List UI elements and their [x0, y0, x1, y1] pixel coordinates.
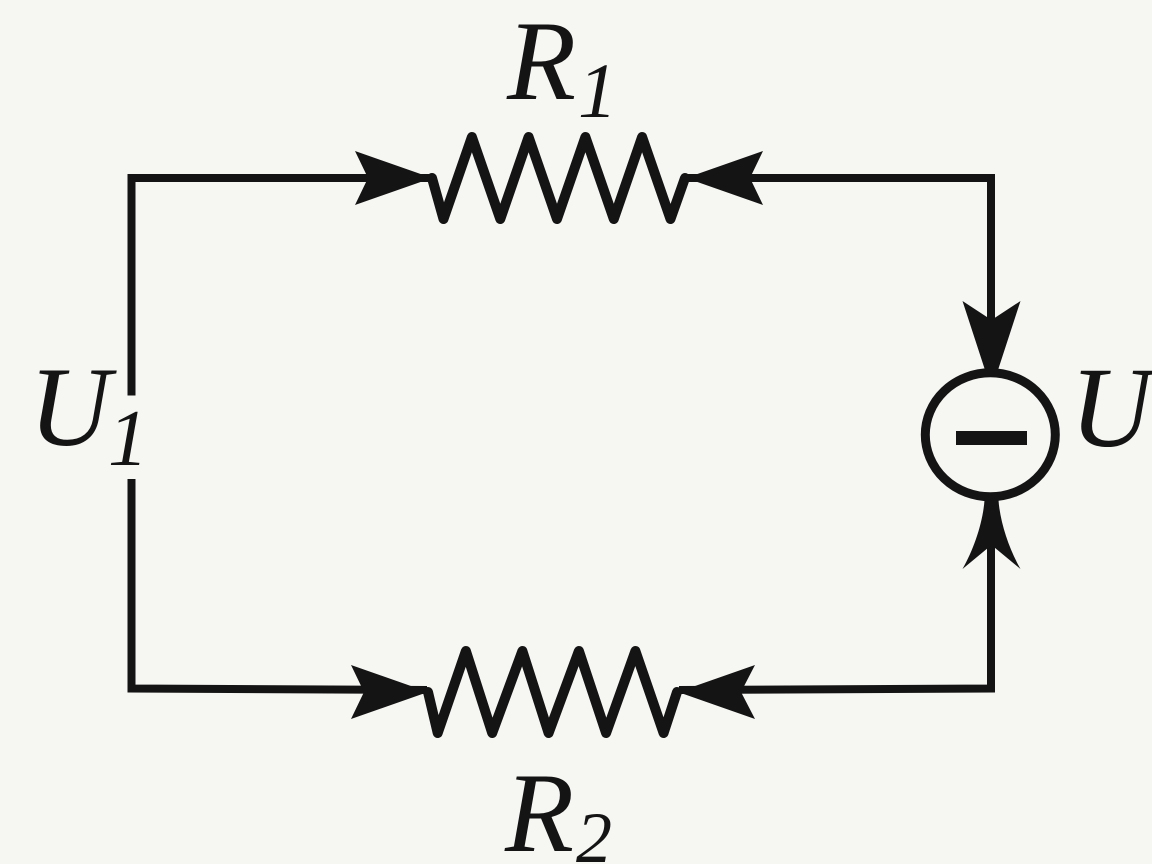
svg-text:U: U [29, 345, 117, 470]
svg-text:R: R [504, 751, 574, 864]
svg-text:1: 1 [108, 395, 148, 483]
svg-text:1: 1 [578, 47, 617, 134]
svg-text:U: U [1070, 344, 1152, 471]
svg-text:2: 2 [576, 798, 612, 864]
svg-text:R: R [506, 0, 576, 124]
